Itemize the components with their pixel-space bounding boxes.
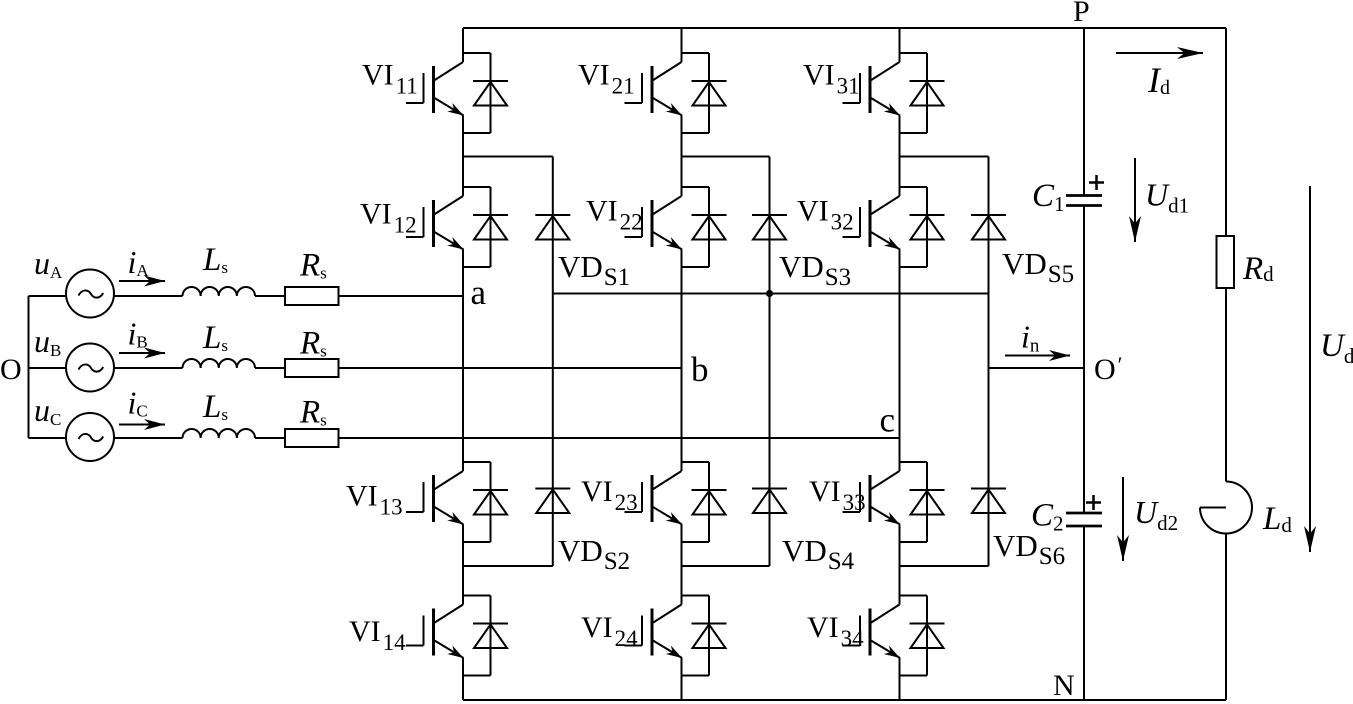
wire leg 3 upper junction to clamp column bbox=[900, 156, 989, 158]
voltage arrow Ud bbox=[1309, 186, 1311, 552]
svg-text:b: b bbox=[691, 350, 709, 389]
inductor Ls phase A bbox=[183, 287, 255, 296]
wire source uC to inductor bbox=[115, 437, 183, 439]
transistor VI34 (IGBT) bbox=[843, 605, 901, 659]
capacitor C1 bbox=[1066, 196, 1102, 206]
diode antiparallel of VI34 bbox=[910, 623, 945, 625]
diode antiparallel of VI11 bbox=[473, 80, 508, 82]
wire clamp column leg 2 bbox=[769, 157, 771, 567]
wire VI21 diode top stub bbox=[682, 52, 710, 54]
resistor Rs phase B bbox=[285, 359, 339, 377]
transistor VI22 (IGBT) bbox=[625, 196, 683, 250]
current arrow iC bbox=[119, 424, 165, 426]
wire leg 3 rail segments bbox=[899, 28, 901, 700]
wire VI14 diode column bbox=[490, 596, 492, 676]
voltage arrow Ud2 bbox=[1122, 477, 1124, 561]
wire VI12 diode column bbox=[490, 187, 492, 267]
wire VI23 diode top stub bbox=[682, 461, 710, 463]
transistor VI12 (IGBT) bbox=[406, 196, 464, 250]
wire leg 1 rail segments bbox=[462, 28, 464, 700]
wire VI24 diode bottom stub bbox=[682, 675, 710, 677]
wire O bus to source uA bbox=[29, 295, 66, 297]
wire VI34 diode top stub bbox=[900, 595, 928, 597]
wire VI24 diode top stub bbox=[682, 595, 710, 597]
wire VI33 diode column bbox=[926, 462, 928, 542]
current arrow iA bbox=[119, 280, 165, 282]
wire phase a line to converter bbox=[339, 295, 464, 297]
resistor Rs phase C bbox=[285, 429, 339, 447]
wire VI22 diode top stub bbox=[682, 186, 710, 188]
clamp diode VDS1 bbox=[535, 214, 570, 216]
wire clamp column leg 1 bbox=[552, 157, 554, 567]
AC source uC bbox=[66, 413, 114, 461]
diode antiparallel of VI14 bbox=[473, 623, 508, 625]
diode antiparallel of VI31 bbox=[910, 80, 945, 82]
transistor VI32 (IGBT) bbox=[843, 196, 901, 250]
wire left source bus bbox=[28, 296, 30, 438]
clamp diode VDS3 bbox=[752, 214, 787, 216]
wire source uA to inductor bbox=[115, 295, 183, 297]
wire VI21 diode bottom stub bbox=[682, 132, 710, 134]
resistor Rs phase A bbox=[285, 287, 339, 305]
wire VI13 diode top stub bbox=[463, 461, 491, 463]
wire VI31 diode bottom stub bbox=[900, 132, 928, 134]
voltage arrow Ud1 bbox=[1134, 158, 1136, 242]
transistor VI31 (IGBT) bbox=[843, 62, 901, 116]
transistor VI14 (IGBT) bbox=[406, 605, 464, 659]
svg-text:N: N bbox=[1053, 669, 1075, 702]
diode antiparallel of VI21 bbox=[692, 80, 727, 82]
transistor VI13 (IGBT) bbox=[406, 471, 464, 525]
diode antiparallel of VI32 bbox=[910, 214, 945, 216]
svg-text:O: O bbox=[0, 353, 22, 386]
current arrow in bbox=[1005, 355, 1070, 357]
wire VI11 diode bottom stub bbox=[463, 132, 491, 134]
wire VI22 diode bottom stub bbox=[682, 266, 710, 268]
diode antiparallel of VI12 bbox=[473, 214, 508, 216]
diode antiparallel of VI13 bbox=[473, 489, 508, 491]
wire phase b line to converter bbox=[339, 367, 682, 369]
wire leg 1 upper junction to clamp column bbox=[463, 156, 553, 158]
junction dot on neutral line at leg 2 bbox=[766, 290, 773, 297]
resistor Rd bbox=[1217, 236, 1235, 288]
wire VI12 diode top stub bbox=[463, 186, 491, 188]
wire VI21 diode column bbox=[708, 53, 710, 133]
clamp diode VDS6 bbox=[971, 488, 1006, 490]
wire load branch middle bbox=[1225, 288, 1227, 482]
wire leg 2 rail segments bbox=[681, 28, 683, 700]
transistor VI33 (IGBT) bbox=[843, 471, 901, 525]
svg-text:a: a bbox=[471, 273, 487, 312]
wire capacitor leg middle bbox=[1083, 206, 1085, 514]
wire O bus to source uB bbox=[29, 367, 66, 369]
current arrow iB bbox=[119, 352, 165, 354]
wire VI34 diode bottom stub bbox=[900, 675, 928, 677]
inductor Ls phase C bbox=[183, 429, 255, 438]
current arrow Id bbox=[1116, 52, 1203, 54]
wire VI11 diode top stub bbox=[463, 52, 491, 54]
wire VI14 diode bottom stub bbox=[463, 675, 491, 677]
polarity plus of C1 bbox=[1089, 175, 1104, 190]
wire clamp column leg 3 bbox=[988, 157, 990, 567]
wire VI32 diode bottom stub bbox=[900, 266, 928, 268]
wire VI13 diode bottom stub bbox=[463, 541, 491, 543]
svg-text:c: c bbox=[880, 401, 896, 440]
capacitor C2 bbox=[1066, 513, 1102, 526]
wire top bus (P rail) bbox=[463, 27, 1226, 29]
transistor VI23 (IGBT) bbox=[625, 471, 683, 525]
clamp diode VDS4 bbox=[752, 488, 787, 490]
wire leg 2 upper junction to clamp column bbox=[682, 156, 770, 158]
diode antiparallel of VI22 bbox=[692, 214, 727, 216]
wire VI31 diode top stub bbox=[900, 52, 928, 54]
polarity plus of C2 bbox=[1086, 495, 1101, 510]
wire capacitor leg lower bbox=[1083, 526, 1085, 700]
wire phase c line to converter bbox=[339, 437, 900, 439]
wire VI32 diode column bbox=[926, 187, 928, 267]
wire VI24 diode column bbox=[708, 596, 710, 676]
AC source uB bbox=[66, 344, 114, 392]
wire inductor to resistor phase B bbox=[255, 367, 285, 369]
AC source uA bbox=[66, 270, 114, 318]
wire inductor to resistor phase A bbox=[255, 295, 285, 297]
wire VI32 diode top stub bbox=[900, 186, 928, 188]
transistor VI24 (IGBT) bbox=[625, 605, 683, 659]
wire VI13 diode column bbox=[490, 462, 492, 542]
wire bottom bus (N rail) bbox=[463, 699, 1226, 701]
clamp diode VDS2 bbox=[535, 488, 570, 490]
transistor VI11 (IGBT) bbox=[406, 62, 464, 116]
wire inductor to resistor phase C bbox=[255, 437, 285, 439]
wire capacitor leg upper bbox=[1083, 28, 1085, 196]
wire VI23 diode column bbox=[708, 462, 710, 542]
wire VI31 diode column bbox=[926, 53, 928, 133]
diode antiparallel of VI23 bbox=[692, 489, 727, 491]
wire load branch lower bbox=[1225, 534, 1227, 701]
wire leg 2 lower junction to clamp column bbox=[682, 565, 770, 567]
wire VI34 diode column bbox=[926, 596, 928, 676]
wire O bus to source uC bbox=[29, 437, 66, 439]
diode antiparallel of VI33 bbox=[910, 489, 945, 491]
wire VI23 diode bottom stub bbox=[682, 541, 710, 543]
inductor Ls phase B bbox=[183, 359, 255, 368]
wire leg 1 lower junction to clamp column bbox=[463, 565, 553, 567]
wire VI33 diode top stub bbox=[900, 461, 928, 463]
svg-text:P: P bbox=[1073, 0, 1090, 28]
transistor VI21 (IGBT) bbox=[625, 62, 683, 116]
wire leg 3 lower junction to clamp column bbox=[900, 565, 989, 567]
wire neutral to O' (in) bbox=[989, 367, 1085, 369]
inductor Ld bbox=[1200, 482, 1252, 534]
wire VI14 diode top stub bbox=[463, 595, 491, 597]
wire source uB to inductor bbox=[115, 367, 183, 369]
wire VI12 diode bottom stub bbox=[463, 266, 491, 268]
wire VI33 diode bottom stub bbox=[900, 541, 928, 543]
wire neutral line (clamp midpoints) bbox=[553, 293, 989, 295]
wire VI11 diode column bbox=[490, 53, 492, 133]
wire load branch upper bbox=[1225, 28, 1227, 236]
wire VI22 diode column bbox=[708, 187, 710, 267]
diode antiparallel of VI24 bbox=[692, 623, 727, 625]
clamp diode VDS5 bbox=[971, 214, 1006, 216]
